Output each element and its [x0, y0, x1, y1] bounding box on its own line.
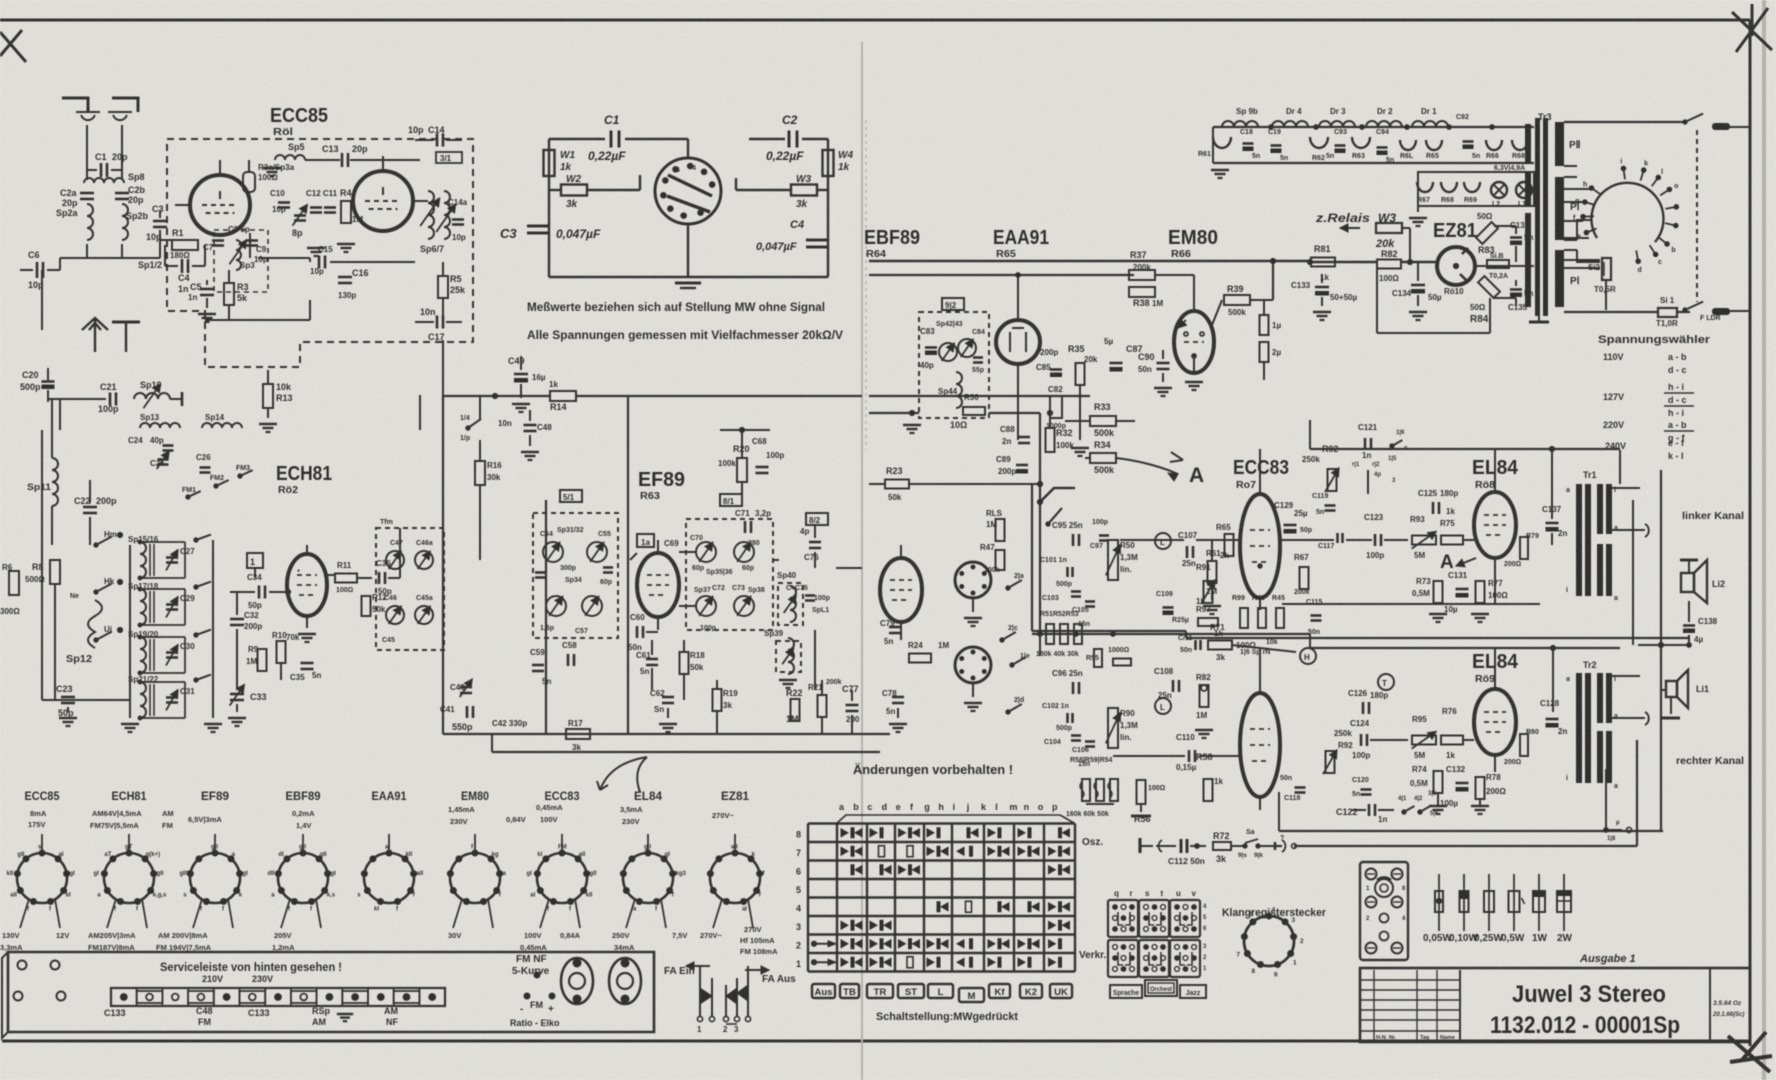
resistor R6 300 ohm [9, 571, 19, 595]
coil Sp2a [87, 204, 93, 240]
keycap Orchester [1145, 980, 1177, 996]
power frame box [1564, 121, 1685, 123]
plug block r1c1 [1108, 900, 1138, 937]
tube pinout ECH81 [104, 853, 154, 903]
lamp L1 [1516, 182, 1532, 198]
plug block r2c2 [1139, 940, 1169, 977]
capacitor C36 50p [378, 572, 381, 584]
mains switch top [1683, 120, 1687, 124]
keycap Aus [812, 984, 835, 998]
wattage symbol 0,05W [1438, 874, 1440, 931]
boxed node 8/1 [720, 494, 742, 506]
border frame top line [0, 19, 1750, 22]
tube pinout EAA91 [364, 853, 414, 903]
resistor R18 50k [680, 652, 689, 674]
transformer Tr3 ground [1529, 321, 1549, 324]
switch matrix grid [808, 822, 1075, 824]
transformer Tr2 secondary bars [1597, 673, 1603, 723]
switch claw at bus corner [1040, 488, 1075, 502]
capacitor C2 0.22uF [788, 131, 791, 148]
heater chain ground [1212, 127, 1214, 163]
bus feedback y645 [1638, 644, 1689, 646]
scan fold seam [861, 42, 863, 1080]
capacitor C10 10p [278, 201, 290, 204]
resistor R12 50k [362, 596, 371, 616]
selector wires [1563, 220, 1583, 222]
heater Rö4 Rö5 [1400, 140, 1416, 150]
wire mid bus y734 [443, 733, 890, 735]
switch levers tuned bank [194, 538, 198, 542]
coil Sp11 [52, 458, 58, 506]
wire C20 to C21 [48, 398, 106, 400]
vertical wires right [1632, 500, 1634, 645]
wire to circled H [1232, 645, 1296, 652]
transformer Tr2 primary bars [1576, 673, 1582, 783]
switch wafer socket b [955, 647, 991, 683]
bus B+ into EZ81 [1310, 261, 1377, 263]
label FA Aus [745, 969, 769, 971]
plug block r2c1 [1108, 940, 1138, 977]
plug block r1c3 [1170, 900, 1200, 937]
tube pinout EZ81 [710, 853, 760, 903]
wires ECH81 stage [399, 528, 401, 578]
resistor R11 100 ohm [327, 574, 334, 576]
resistor R13 10k [263, 384, 273, 408]
boxed node 1a [637, 534, 654, 547]
boxed node 5/1 [560, 490, 582, 502]
capacitor C68 100p [756, 466, 769, 469]
wire R34 to A [1116, 458, 1178, 474]
capacitor C13 20p [341, 153, 344, 167]
border frame bottom line [2, 1040, 1750, 1043]
wires EZ81 to transformer [1475, 265, 1534, 267]
capacitor C1 0.22uF [610, 131, 613, 148]
tube pinout ECC83 [537, 853, 587, 903]
plug block r2c3 [1170, 940, 1200, 977]
resistor R32 100k [1046, 428, 1055, 452]
pinout EZ81 leads [734, 834, 736, 853]
ground below socket [675, 282, 701, 285]
wattage symbol 1W [1538, 874, 1540, 931]
wire band bus [41, 430, 43, 700]
resistor R1 180 ohm [172, 240, 198, 250]
ground C12 [307, 247, 325, 250]
circled L lower [1155, 698, 1171, 714]
IF can 3 dashed box [686, 519, 773, 630]
capacitor C32 200p [230, 618, 244, 621]
capacitor C112 50n [1138, 838, 1141, 853]
switch levers 2/a 2/d [1006, 586, 1010, 590]
pinout EL84 leads [647, 834, 649, 853]
wire vertical x213 bank [212, 540, 214, 718]
bus output tap y831 [1279, 830, 1663, 832]
capacitor C60 50n [636, 626, 639, 638]
wattage symbol 0,10W [1463, 874, 1465, 931]
tube EF89 [637, 553, 679, 617]
FA switch terminals [697, 1016, 702, 1021]
capacitor C9 10p [246, 239, 258, 242]
resistor W3 20k [1376, 223, 1402, 233]
tube pinout EL84 [623, 853, 673, 903]
connector plug box [1360, 862, 1408, 960]
wattage symbol 0,25W [1488, 874, 1490, 931]
FA switch contacts [699, 966, 701, 1016]
resistor W3 3k [818, 189, 828, 191]
ground cap plate [112, 321, 140, 324]
matrix cell symbols [841, 829, 848, 837]
capacitor C12 C11 [310, 206, 322, 209]
wire EZ81 bottom to ground rail [1376, 262, 1378, 333]
resistor R78 200 ohm [1476, 777, 1485, 799]
boxed node 1 [247, 553, 263, 568]
variable capacitor 8p [294, 214, 306, 217]
heater Rö6 Rö8 [1486, 140, 1502, 150]
capacitor C138 4u [1683, 624, 1695, 627]
coil Sp3 variable [236, 240, 241, 270]
corner mark top-left [0, 30, 26, 62]
arrow to relay [1340, 227, 1360, 229]
circled T [1378, 674, 1394, 690]
tube socket test adapter [655, 158, 721, 224]
wire y413 [869, 412, 919, 414]
resistor R38 1M [1129, 287, 1155, 297]
coil Sp39 dashed box [776, 641, 801, 672]
coil Sp5 [275, 155, 305, 160]
wire signal y592 [287, 591, 288, 593]
resistor W2 3k [549, 189, 560, 191]
tube EM80 [1174, 311, 1214, 373]
vertical bus x1273 [1272, 261, 1274, 300]
wire EL84 plate top [1310, 448, 1620, 450]
coil Sp44 [956, 372, 962, 408]
resistor R3 5k [224, 283, 234, 305]
heater Rö2 [1310, 137, 1328, 148]
resistor R9 1M [258, 649, 267, 671]
capacitor C7 [212, 239, 224, 242]
connector oval right [609, 958, 641, 1004]
long bus pair lower [1282, 603, 1540, 605]
coil Sp8 [84, 178, 124, 183]
tube pinout EM80 [450, 853, 500, 903]
dashed link switches [1696, 130, 1698, 302]
capacitor C16 130p [338, 276, 352, 279]
keycap Kf [989, 984, 1010, 998]
tube pinout EF89 [190, 853, 240, 903]
mains switch bottom [1683, 308, 1687, 312]
pinout EF89 leads [214, 834, 216, 853]
grounds lower channel [1429, 805, 1447, 808]
capacitor C79 5n [889, 626, 901, 629]
bus output tap y846 [1275, 845, 1282, 847]
corner mark bottom-right [1728, 1032, 1772, 1072]
boxed label 3/1 [436, 152, 462, 163]
tube ECC85 triode b [353, 171, 413, 231]
bottom rail to transformer [1377, 332, 1490, 334]
terminal strip [111, 988, 445, 1006]
resistor R79 200 ohm [1520, 537, 1528, 559]
capacitor C61 5n [646, 658, 658, 661]
antenna dipole top-left [62, 98, 138, 112]
capacitor C6 10p [36, 262, 39, 278]
ground arrow antenna [82, 318, 108, 352]
long bus verticals [442, 396, 444, 734]
resistor R56 100 ohm [1137, 780, 1146, 804]
capacitor C2a 20p [80, 192, 94, 195]
pinout ECC83 leads [561, 834, 563, 853]
wire to C3 [86, 244, 88, 258]
bus wire y275 [869, 274, 1134, 276]
keycap TR [867, 984, 893, 998]
caps 1u 2u column [1260, 315, 1269, 335]
resistor R8 500 ohm [50, 560, 60, 584]
transformer Tr3 left winding bars [1525, 124, 1531, 164]
capacitor C21 100p [109, 393, 112, 406]
wire detector mid [1017, 378, 1019, 440]
tube EBF89 [880, 558, 922, 622]
keycap ST [898, 984, 924, 998]
page edge shadow right [1762, 0, 1766, 1080]
tube EL84 lower [1474, 689, 1516, 755]
voltage selector arc [1591, 183, 1663, 242]
coil Sp2b [122, 204, 128, 240]
wire outputs right [836, 567, 862, 569]
wire grid bus [160, 239, 190, 241]
transformer Tr1 secondary bars [1597, 484, 1603, 534]
capacitor C4 1n [181, 259, 184, 273]
boxed node 9/2 [942, 298, 964, 310]
keycap TB [840, 984, 859, 998]
wire row y258 [258, 257, 310, 259]
heater chain top wire [1213, 126, 1534, 128]
capacitor C5 1n [200, 288, 214, 291]
wire lower rail y752 [492, 751, 880, 753]
border frame right line [1749, 20, 1752, 1046]
capacitor C35 5n [301, 662, 314, 665]
pinout EM80 leads [474, 834, 476, 853]
boxed node 8/2 [806, 513, 828, 525]
wire vertical x130 [129, 545, 131, 718]
title block left table [1360, 979, 1460, 981]
resistor R19 3k [713, 689, 722, 711]
capacitor C17 10n [436, 316, 439, 329]
wires AF [1039, 413, 1041, 634]
tube EAA91 [996, 320, 1040, 364]
keycap L [928, 984, 953, 998]
tube ECC83 lower [1240, 693, 1280, 797]
dashed box Sp3 cluster [214, 230, 268, 292]
Klangregister socket circle [1244, 916, 1294, 966]
wires EF89 to IF can [679, 551, 696, 553]
band switch contacts [94, 543, 98, 547]
dashed box ECC85 stage [167, 139, 473, 367]
coil Sp40 dashed box [778, 583, 803, 625]
winding stub wires [1564, 165, 1577, 167]
heater Rö3 [1352, 137, 1370, 148]
keycap UK [1050, 984, 1072, 998]
wire left column [59, 258, 61, 270]
wire Li2 down [1688, 601, 1690, 622]
coil Sp6/7 variable [428, 191, 434, 239]
capacitor C1 20p [100, 163, 103, 177]
heater chain bottom wire [1213, 162, 1534, 164]
resistor W1 1k [544, 150, 555, 176]
annotation arrow near Aenderungen [600, 757, 647, 792]
title small box right [1709, 968, 1711, 1042]
capacitor C62 5n [662, 696, 674, 699]
circled H [1300, 648, 1316, 664]
capacitor C14 10p top [436, 134, 439, 147]
transformer Tr3 core bars [1535, 118, 1540, 316]
capacitor C135 bottom 5n [1510, 288, 1522, 291]
capacitor C2b 20p [115, 192, 129, 195]
tube ECH81 [287, 554, 327, 616]
tube EL84 upper [1474, 492, 1516, 558]
service strip outer box [8, 952, 654, 1032]
corner mark top-right [1732, 4, 1772, 52]
capacitor C14a 10p [452, 218, 464, 221]
wire bottom bus detail [1039, 634, 1041, 656]
heater row2 box [1418, 172, 1534, 206]
resistor R80 200 ohm [1520, 734, 1528, 756]
capacitor C33 variable [230, 693, 244, 696]
potentiometer R50 1.3M lin [1108, 540, 1118, 580]
plug block r1c2 [1139, 900, 1169, 937]
circled L upper [1155, 533, 1171, 549]
wire EL84 lower top [1310, 647, 1620, 649]
capacitor C78 5n [892, 696, 904, 699]
resistor R16 30k [475, 461, 485, 485]
wires Tr1 [1619, 450, 1621, 484]
title block outer [1360, 968, 1750, 1042]
resistor R10 70k [277, 641, 286, 663]
keycap Jazz [1180, 985, 1206, 998]
keycap M [959, 988, 984, 1002]
connector oval left [561, 958, 593, 1004]
speaker Li2 [1680, 559, 1698, 562]
switch wafer socket a [955, 562, 991, 598]
service strip mounting holes [18, 961, 27, 970]
heater Rö1 [1213, 137, 1231, 148]
resistor R4 1M [341, 201, 351, 223]
resistor R84 50 ohm diagonal [1478, 276, 1500, 298]
wire antenna feeds [86, 125, 88, 180]
output tap stubs [1605, 769, 1607, 830]
speaker Li1 [1666, 681, 1677, 697]
junction dots heater [1269, 125, 1274, 130]
pinout ECH81 leads [128, 834, 130, 853]
wire R20 top [720, 429, 770, 431]
bus wire B+ y261 [869, 260, 1310, 262]
coil C54 Sp31/32 C55 [543, 542, 563, 562]
pinout EAA91 leads [388, 834, 390, 853]
resistor R17 3k [566, 729, 590, 739]
wire stage bottom [205, 319, 310, 321]
lamp L2 [1491, 182, 1507, 198]
resistor R77 100 ohm [1476, 581, 1485, 603]
binding post top [1712, 123, 1730, 130]
tube ECC85 triode a [190, 175, 250, 235]
coil Sp10 variable [134, 393, 170, 399]
capacitor C15 10p [318, 256, 321, 269]
wattage symbol 0,5W [1513, 874, 1515, 931]
tube ECC83 upper [1240, 494, 1280, 598]
measurement jig wires [549, 138, 605, 140]
heater row2 ground [1417, 206, 1419, 212]
resistor R5 25k [438, 276, 448, 298]
potentiometer R90 1.3M lin [1108, 708, 1118, 748]
bus y634 [1032, 633, 1310, 635]
resistor R3a/Sp3a 100 ohm [243, 172, 255, 192]
keycap Sprache [1110, 985, 1142, 998]
keycap K2 [1020, 984, 1042, 998]
wattage symbol 2W [1563, 874, 1565, 931]
IF can 2 dashed box [533, 513, 618, 638]
wire bus top right half [869, 395, 1090, 397]
resistor W4 1k [823, 150, 834, 176]
tube EZ81 [1437, 247, 1475, 285]
pinout ECC85 leads [41, 834, 43, 853]
IF transformer block 1 dashed [376, 528, 444, 650]
capacitor C23 50p [61, 696, 75, 699]
dots between connectors [534, 972, 540, 978]
wire y540 to ECC83 [1120, 539, 1184, 541]
ratio detector dashed box [919, 312, 989, 418]
binding post bottom [1712, 308, 1730, 315]
wires Tr2 [1612, 675, 1640, 677]
pinout EBF89 leads [302, 834, 304, 853]
wire y756 [1113, 755, 1185, 757]
heater row2 resistors [1417, 182, 1433, 192]
transformer Tr3 windings [1555, 122, 1564, 166]
tube pinout EBF89 [278, 853, 328, 903]
transformer Tr1 primary bars [1576, 484, 1582, 596]
tube pinout ECC85 [17, 853, 67, 903]
capacitor C22 200p [83, 506, 97, 509]
scan noise overlay [0, 0, 1, 1]
